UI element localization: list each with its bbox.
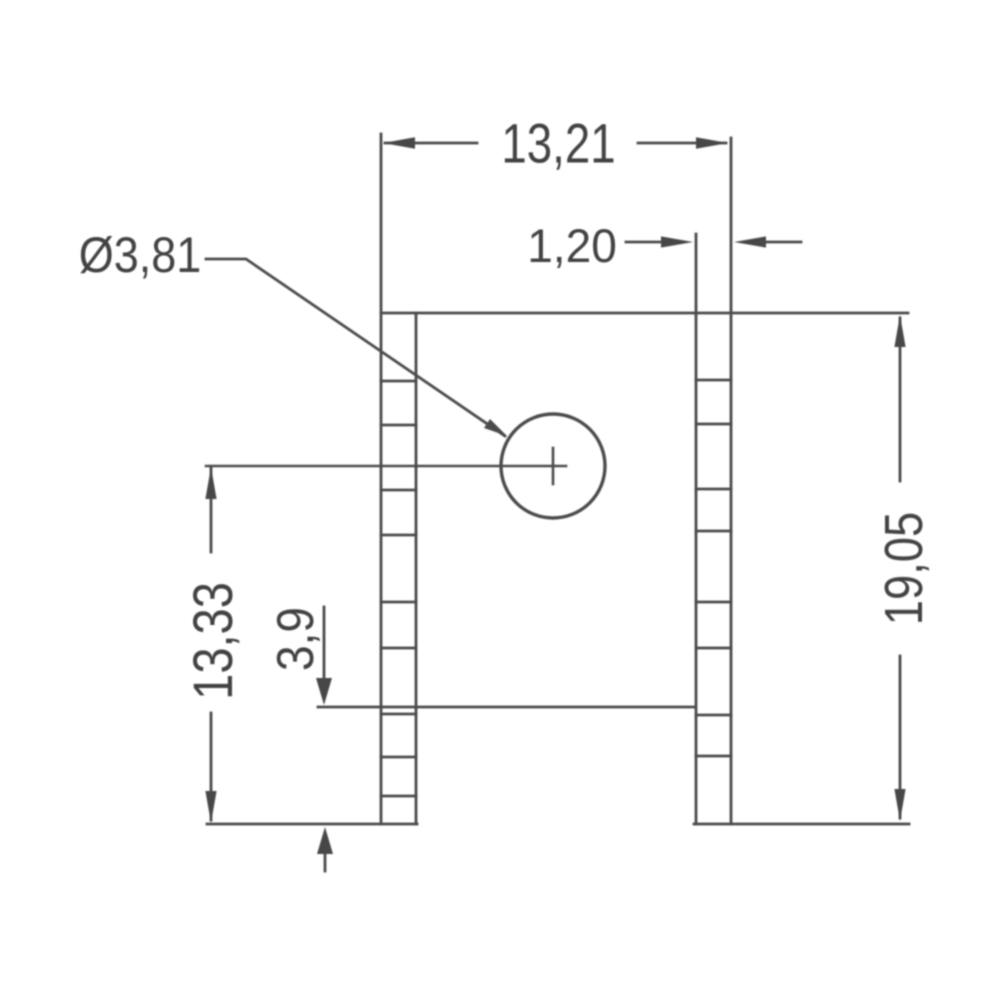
left rail outer line / extension line for 13,21	[380, 134, 383, 824]
hole vertical crosshair	[552, 448, 555, 484]
right rail outer line / extension line for 13,21 and 1,20	[730, 138, 733, 824]
svg-text:13,21: 13,21	[501, 112, 615, 174]
arrow 1,20 left	[661, 236, 693, 247]
dimension 13,33 shaft lower	[210, 713, 213, 820]
dimension 1,20 right arrow shaft	[760, 241, 801, 244]
dimension 3,9 upper shaft	[323, 607, 326, 682]
heatsink body top edge	[381, 312, 908, 315]
arrow 13,21 left	[383, 137, 415, 149]
dimension 13,21 line left part	[385, 142, 477, 145]
dimension 13,33 shaft upper	[210, 468, 213, 552]
arrow 13,33 bottom	[205, 791, 216, 823]
dimension 13,21 line right part	[638, 142, 726, 145]
leader line for hole diameter	[206, 259, 505, 436]
arrow 3,9 up (solid)	[317, 827, 333, 854]
dimension 19,05 shaft upper	[899, 318, 902, 481]
right rail serration hatches	[696, 380, 731, 756]
bottom edge left segment	[207, 823, 417, 826]
svg-text:19,05: 19,05	[873, 512, 934, 626]
svg-text:1,20: 1,20	[527, 220, 617, 273]
bottom edge right segment	[694, 823, 909, 826]
hole horizontal centerline	[206, 465, 566, 468]
arrow 19,05 top	[894, 315, 905, 347]
mounting hole circle	[501, 414, 605, 518]
leader arrowhead	[484, 419, 507, 436]
arrow 13,21 right	[696, 137, 728, 149]
dimension 3,9 lower shaft	[324, 852, 327, 871]
dimension 19,05 shaft lower	[899, 656, 902, 818]
arrow 3,9 down (solid)	[316, 678, 332, 705]
arrow 19,05 bottom	[894, 789, 905, 821]
left rail inner line	[415, 313, 418, 824]
arrow 1,20 right	[734, 236, 766, 247]
svg-text:Ø3,81: Ø3,81	[79, 228, 202, 284]
left rail serration hatches	[381, 381, 416, 796]
svg-text:3,9: 3,9	[267, 607, 324, 671]
dimension 1,20 left arrow shaft	[626, 241, 668, 244]
tab lower edge line	[318, 706, 695, 709]
svg-text:13,33: 13,33	[181, 582, 244, 700]
arrow 13,33 top	[205, 467, 216, 499]
right rail inner line / extension line for 1,20	[695, 234, 698, 824]
